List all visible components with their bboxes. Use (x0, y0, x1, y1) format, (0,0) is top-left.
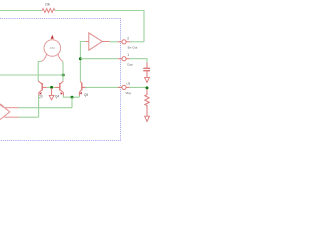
svg-text:Vbg: Vbg (125, 91, 131, 95)
svg-text:Cap: Cap (127, 63, 133, 67)
wire opamp inB to Q3 emitter leg (19, 116, 39, 118)
svg-text:Q4: Q4 (55, 94, 59, 98)
current monitor CM (44, 40, 61, 57)
capacitor C1 (143, 63, 150, 78)
transistor Q3 (38, 81, 47, 96)
wire CM left leg down (38, 61, 41, 81)
current monitor CM arrow (51, 35, 54, 39)
ground GND1 (51, 88, 53, 95)
wire Q4 emitter to Q5 emitter (63, 95, 79, 97)
CM left lead (42, 54, 47, 61)
schematic boundary (dashed hierarchical block outline) (0, 19, 121, 141)
wire Q3 base to Q4 base (47, 86, 55, 88)
node junction emitters (71, 96, 74, 99)
ground GND3 below resistor (145, 116, 150, 121)
wire Q3 emitter down leg (38, 95, 40, 117)
wire pin2 to top rail (130, 41, 144, 43)
svg-text:Q5: Q5 (84, 93, 88, 97)
transistor Q4 (55, 81, 63, 95)
wire top rail right (55, 11, 144, 42)
CM right lead (58, 54, 63, 61)
transistor Q5 (79, 81, 85, 96)
wire Q5 collector riser (80, 42, 85, 82)
svg-text:Err Out: Err Out (128, 46, 138, 50)
wire opamp inA to emitter node riser (19, 107, 73, 109)
wire Q5 emitter joins emitter rail (78, 96, 80, 98)
pin 3 Vbg (86, 82, 131, 95)
op-amp U1 buffer (85, 33, 110, 50)
node junction resistor top (146, 86, 149, 89)
Q3 emitter arrowhead (39, 92, 42, 95)
op-amp U2 (edge, partially visible) (0, 104, 19, 119)
wire emitter node down to bottom rail (71, 97, 73, 108)
wire pin3 to resistor node (130, 86, 147, 88)
wire cap rail (80, 58, 118, 60)
svg-text:1: 1 (127, 53, 129, 57)
pin 2 Err Out (118, 36, 137, 49)
wire long left rail (0, 74, 63, 76)
svg-text:CM: CM (50, 46, 55, 50)
wire pin1 to capacitor (130, 59, 147, 63)
svg-text:2: 2 (127, 36, 129, 40)
pin 1 Cap (118, 53, 133, 66)
resistor R2 (145, 89, 149, 116)
node junction at cap wire (79, 57, 82, 60)
Q4 emitter arrowhead (60, 92, 63, 95)
svg-text:U3: U3 (126, 82, 130, 86)
node junction at right leg (62, 74, 65, 77)
wire opamp out to pin2 (110, 41, 118, 43)
wire CM right leg down (62, 61, 64, 81)
wire top rail left (0, 10, 42, 12)
resistor R1 (42, 9, 55, 13)
svg-text:20k: 20k (45, 3, 51, 7)
Q5 emitter arrowhead (80, 92, 83, 95)
ground GND2 below capacitor (145, 77, 150, 82)
node junction ground tap (50, 86, 53, 89)
